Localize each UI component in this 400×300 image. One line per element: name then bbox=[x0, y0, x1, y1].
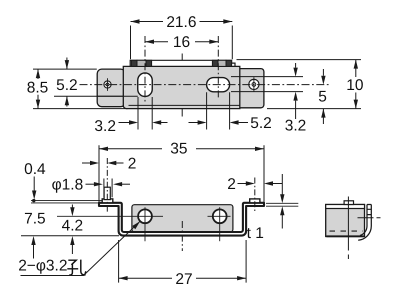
side view: pin centerline right bbox=[254, 178, 256, 213]
end view: top band bbox=[326, 205, 365, 209]
top view: right slot (horizontal obround) bbox=[207, 78, 230, 92]
top view: right small hole bbox=[249, 79, 259, 89]
side view: bent sheet bbox=[99, 203, 264, 236]
svg-text:2−φ3.2: 2−φ3.2 bbox=[18, 258, 67, 275]
side view: grey face bbox=[132, 205, 233, 232]
svg-text:16: 16 bbox=[173, 34, 190, 51]
top view: tab pad left bbox=[137, 60, 146, 66]
end view: riser strip bbox=[358, 205, 371, 241]
svg-text:8.5: 8.5 bbox=[27, 79, 49, 96]
svg-text:5.2: 5.2 bbox=[250, 115, 272, 132]
dim 35 bbox=[99, 145, 264, 203]
dim 5.2 left bbox=[66, 58, 68, 107]
top view: tab dark segment right B bbox=[226, 60, 232, 66]
svg-text:2: 2 bbox=[227, 176, 236, 193]
dim phi 1.8 bbox=[104, 179, 112, 198]
top view: horizontal centerline bbox=[80, 84, 331, 86]
side view: left pin bbox=[104, 187, 110, 199]
top view: bend line bbox=[129, 104, 240, 106]
top view: right ear bbox=[236, 69, 264, 108]
svg-text:10: 10 bbox=[346, 77, 364, 94]
svg-text:21.6: 21.6 bbox=[166, 14, 196, 31]
end view: horizontal centerline bbox=[358, 217, 382, 219]
svg-text:5: 5 bbox=[318, 89, 327, 106]
dim 16 bbox=[145, 41, 218, 43]
side view: right collar bbox=[250, 199, 260, 203]
end view: vertical centerline bbox=[347, 197, 349, 260]
svg-text:0.4: 0.4 bbox=[24, 161, 46, 178]
top view: left ear bbox=[97, 69, 125, 107]
top view: ear bend line left bbox=[97, 95, 123, 97]
dim 10 bbox=[237, 60, 362, 109]
svg-text:4.2: 4.2 bbox=[62, 218, 84, 235]
top view: tab dark segment left B bbox=[146, 60, 152, 66]
end view: collar bbox=[344, 201, 353, 205]
svg-text:3.2: 3.2 bbox=[94, 118, 116, 135]
dim 2 right bbox=[238, 183, 283, 185]
svg-text:7.5: 7.5 bbox=[24, 211, 46, 228]
svg-text:27: 27 bbox=[175, 271, 192, 288]
svg-text:3.2: 3.2 bbox=[285, 118, 307, 135]
svg-text:φ1.8: φ1.8 bbox=[52, 177, 84, 194]
dim 3.2 right bbox=[231, 77, 303, 92]
svg-text:35: 35 bbox=[170, 141, 187, 158]
dim 4.2 bbox=[71, 205, 73, 209]
end view: bottom edge emphasis bbox=[326, 235, 363, 237]
svg-text:5.2: 5.2 bbox=[56, 77, 78, 94]
top view: tab dark segment right A bbox=[212, 60, 218, 66]
dim 8.5 bbox=[33, 69, 128, 109]
side view: left collar bbox=[102, 199, 113, 203]
dim 5 bbox=[322, 69, 324, 124]
hole kanji bbox=[67, 260, 86, 276]
top view: tab bbox=[130, 60, 235, 66]
top view: body bbox=[123, 66, 240, 108]
dim 7.5 bbox=[31, 236, 35, 245]
top view: tab dark segment left A bbox=[131, 60, 137, 66]
dim 3.2 bottom-left bbox=[138, 97, 152, 130]
top view: tab pad right bbox=[218, 60, 226, 66]
svg-text:2: 2 bbox=[128, 156, 137, 173]
dim t1 bbox=[266, 203, 298, 206]
end view: hidden bottom line bbox=[330, 230, 364, 232]
side view: pin centerline left bbox=[106, 158, 108, 213]
top view: left slot (vertical obround) bbox=[138, 73, 153, 97]
end view: body bbox=[326, 205, 365, 237]
dim 27 bbox=[119, 240, 247, 283]
dim 21.6 bbox=[131, 26, 233, 60]
side view: part centerline bbox=[181, 221, 183, 251]
dim 0.4 bbox=[33, 177, 35, 192]
top view: left small hole bbox=[104, 81, 111, 88]
end view: strip hidden mark bbox=[367, 209, 371, 214]
dim 2 left bbox=[82, 162, 124, 164]
side view: hole right bbox=[213, 209, 227, 223]
svg-text:t 1: t 1 bbox=[247, 225, 264, 242]
top view: slot centerline left bbox=[144, 36, 146, 103]
top view: slot centerline right bbox=[217, 36, 219, 99]
top view: part centerline ticks bbox=[181, 54, 183, 117]
dim 5.2 bottom bbox=[207, 92, 230, 129]
side view: hole left bbox=[138, 209, 152, 223]
